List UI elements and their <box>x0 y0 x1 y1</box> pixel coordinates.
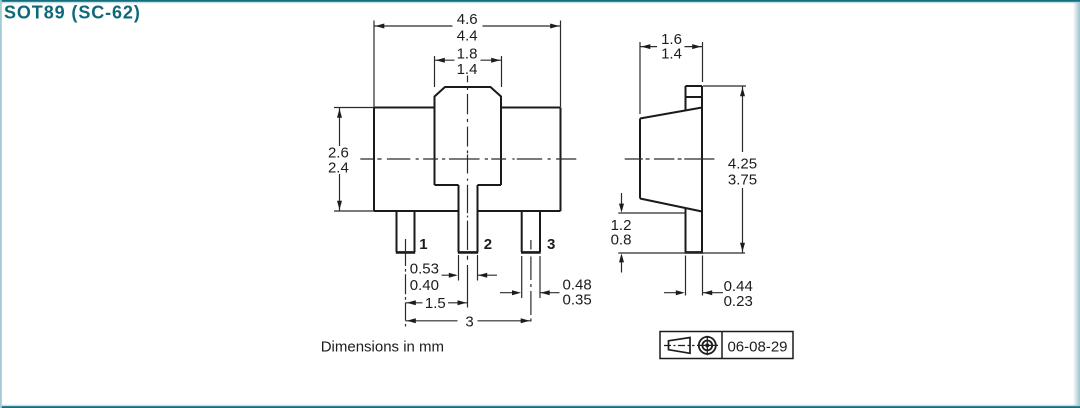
body outline <box>374 108 561 212</box>
svg-text:1: 1 <box>419 236 427 253</box>
dimension 0.48 / 0.35 outer lead width <box>500 256 560 298</box>
lead 1 center extension <box>405 239 407 327</box>
svg-text:06-08-29: 06-08-29 <box>727 339 787 356</box>
dimension 1.5 lead pitch <box>406 302 468 304</box>
dimension 4.25 / 3.75 overall height <box>618 86 746 253</box>
svg-text:0.23: 0.23 <box>724 293 753 310</box>
svg-text:SOT89 (SC-62): SOT89 (SC-62) <box>4 2 141 22</box>
dimension 1.2 / 0.8 lead length <box>618 193 686 273</box>
lead 1 tip <box>396 251 415 254</box>
lead 3 <box>522 211 540 252</box>
side lead <box>685 209 687 252</box>
svg-text:0.40: 0.40 <box>410 277 439 294</box>
svg-text:4.4: 4.4 <box>457 28 478 45</box>
projection symbol cone <box>669 338 691 354</box>
svg-text:2: 2 <box>484 236 492 253</box>
lead 3 center extension <box>530 240 532 322</box>
dimension 2.6 / 2.4 body height <box>334 108 374 212</box>
projection symbol centerline <box>664 345 695 347</box>
dimension 0.44 / 0.23 lead thickness <box>664 256 723 296</box>
svg-text:3: 3 <box>465 314 473 331</box>
lead 1 <box>397 211 415 252</box>
lead 2 tip <box>458 251 478 254</box>
svg-text:4.25: 4.25 <box>728 155 757 172</box>
projection symbol crosshair <box>697 336 718 356</box>
lead 2 (center) <box>459 185 478 252</box>
side lead tip <box>685 251 703 254</box>
svg-text:3: 3 <box>547 236 555 253</box>
issue box divider <box>721 332 723 359</box>
svg-text:1.8: 1.8 <box>457 45 478 62</box>
mounting tab <box>435 87 502 185</box>
dimension 3 lead span <box>406 320 532 322</box>
centerline horizontal front view <box>360 158 576 160</box>
svg-text:Dimensions in mm: Dimensions in mm <box>321 338 444 355</box>
dimension 1.6 / 1.4 side top width <box>640 42 703 114</box>
svg-text:1.4: 1.4 <box>457 61 478 78</box>
centerline vertical front view <box>360 76 576 327</box>
svg-text:0.35: 0.35 <box>563 292 592 309</box>
svg-text:0.53: 0.53 <box>410 260 439 277</box>
svg-text:2.4: 2.4 <box>328 159 349 176</box>
svg-text:4.6: 4.6 <box>457 11 478 28</box>
svg-text:0.8: 0.8 <box>611 232 632 249</box>
issue box frame <box>660 332 793 359</box>
centerline horizontal side view <box>625 158 715 160</box>
dimension 1.8 / 1.4 tab width <box>435 56 502 87</box>
svg-text:1.5: 1.5 <box>425 295 446 312</box>
lead 3 tip <box>521 251 541 254</box>
svg-text:3.75: 3.75 <box>728 171 757 188</box>
dimension 0.53 / 0.40 center lead width <box>442 255 497 281</box>
side tab top <box>686 86 703 111</box>
side body outline <box>640 86 702 252</box>
dimension 4.6 / 4.4 overall width <box>374 21 561 108</box>
svg-text:1.4: 1.4 <box>661 46 682 63</box>
projection symbol circles <box>699 337 716 354</box>
